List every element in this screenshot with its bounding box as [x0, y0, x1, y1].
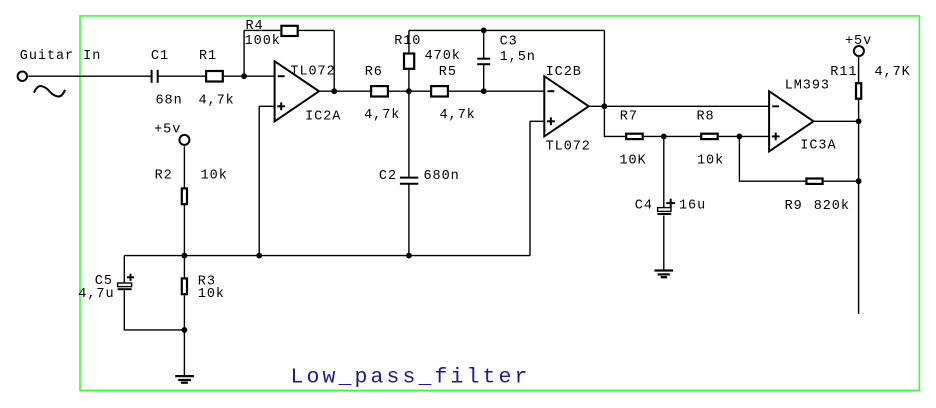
- wire R2 down through bus to R3: [183, 205, 185, 277]
- svg-text:C2: C2: [379, 169, 397, 184]
- label R11: [830, 65, 857, 80]
- svg-text:R1: R1: [199, 49, 217, 64]
- label C5: [95, 274, 113, 289]
- resistor R5: [431, 86, 448, 96]
- svg-text:68n: 68n: [156, 93, 183, 108]
- label R10: [394, 34, 421, 49]
- wire R4 row right segment: [299, 29, 334, 31]
- svg-text:IC2B: IC2B: [546, 65, 582, 80]
- svg-text:C3: C3: [500, 35, 518, 50]
- value 100k: [245, 34, 281, 49]
- junction top row / C3: [481, 28, 487, 34]
- svg-text:R7: R7: [620, 110, 638, 125]
- resistor R2: [182, 188, 187, 204]
- wire R6 to R5: [389, 90, 430, 92]
- wire IC2B output down to R7 row: [604, 106, 625, 136]
- bus wire (bias rail): [124, 255, 530, 257]
- svg-text:16u: 16u: [679, 199, 706, 214]
- label R7: [620, 110, 638, 125]
- AC source sine symbol: [34, 86, 65, 97]
- wire R3 down to ground: [183, 295, 185, 375]
- label R3: [198, 275, 216, 290]
- wire C4 column down: [663, 136, 665, 207]
- label R6: [365, 65, 383, 80]
- value 4,7k (R1): [199, 93, 235, 108]
- wire R1 to IC2A inverting input: [224, 75, 275, 77]
- wire R11 to +5v: [858, 57, 860, 82]
- wire IC2A noninverting stub: [259, 105, 274, 107]
- value 1,5n: [500, 50, 536, 65]
- svg-text:10k: 10k: [198, 287, 225, 302]
- capacitor C2: [400, 178, 418, 184]
- wire R4 row left segment: [244, 29, 280, 31]
- svg-text:R9: R9: [785, 199, 803, 214]
- wire node up to R10: [408, 70, 410, 91]
- svg-text:IC3A: IC3A: [800, 138, 836, 153]
- label IC3A: [800, 138, 836, 153]
- svg-text:R4: R4: [246, 19, 264, 34]
- svg-text:R10: R10: [394, 34, 421, 49]
- title Low_pass_filter: [291, 366, 531, 390]
- junction R6/R10/C2 node: [406, 88, 412, 94]
- capacitor C3: [477, 59, 490, 64]
- junction bus / C2: [406, 253, 412, 259]
- label +5v right: [845, 34, 872, 49]
- wire bus up to IC2B noninverting: [529, 121, 531, 255]
- plus mark C4: [666, 199, 675, 208]
- svg-text:4,7k: 4,7k: [440, 108, 476, 123]
- svg-text:820k: 820k: [814, 199, 850, 214]
- svg-text:Low_pass_filter: Low_pass_filter: [291, 366, 531, 390]
- svg-text:IC2A: IC2A: [305, 110, 341, 125]
- label R5: [439, 65, 457, 80]
- label R2: [155, 169, 173, 184]
- wire C1 to R1: [158, 75, 205, 77]
- junction IC2B output: [602, 103, 608, 109]
- wire C2 column from node down: [408, 91, 410, 177]
- svg-text:10K: 10K: [619, 153, 646, 168]
- capacitor C1: [152, 70, 158, 83]
- value 10K (R7): [619, 153, 646, 168]
- value 10k (R3): [198, 287, 225, 302]
- junction bus / IC2A noninverting: [256, 253, 262, 259]
- wire IC2B noninverting stub: [530, 120, 544, 122]
- op-amp IC2B: [544, 76, 588, 136]
- op-amp IC3A: [769, 91, 813, 151]
- capacitor C5 polarized: [118, 283, 132, 289]
- svg-text:100k: 100k: [245, 34, 281, 49]
- wire IC2A noninverting down to bus: [258, 106, 260, 255]
- wire output column down: [858, 121, 860, 314]
- label IC2B: [546, 65, 582, 80]
- svg-text:1,5n: 1,5n: [500, 50, 536, 65]
- svg-text:R6: R6: [365, 65, 383, 80]
- wire C5 down and right to ground column: [124, 290, 184, 330]
- svg-text:4,7k: 4,7k: [199, 93, 235, 108]
- label +5v left: [154, 123, 181, 138]
- wire R8 to IC3A noninverting input: [719, 135, 769, 137]
- value 16u: [679, 199, 706, 214]
- junction IC2A output / R4: [331, 88, 337, 94]
- svg-text:10k: 10k: [201, 169, 228, 184]
- junction R5 / C3 node: [481, 88, 487, 94]
- wire R4 down to IC2A output: [333, 30, 335, 91]
- wire IC2B output to IC3A inverting input: [589, 105, 769, 107]
- label LM393: [785, 78, 830, 93]
- resistor R6: [371, 86, 388, 96]
- svg-text:C4: C4: [635, 199, 653, 214]
- input connector circle: [18, 72, 27, 81]
- value 4,7K (R11): [875, 65, 911, 80]
- svg-text:4,7K: 4,7K: [875, 65, 911, 80]
- wire +5v to R2: [183, 146, 185, 187]
- svg-text:R5: R5: [439, 65, 457, 80]
- value 10k (R2): [201, 169, 228, 184]
- junction node at R1 output: [241, 73, 247, 79]
- svg-text:680n: 680n: [424, 169, 460, 184]
- svg-text:+5v: +5v: [154, 123, 181, 138]
- resistor R4: [281, 26, 297, 36]
- value 10k (R8): [697, 154, 724, 169]
- ground symbol (R3/C5): [175, 376, 194, 383]
- junction R3 / C5 bottom row: [182, 327, 188, 333]
- resistor R11: [856, 83, 861, 99]
- wire R10 up to top row: [408, 30, 410, 52]
- wire input to C1: [28, 75, 151, 77]
- label R1: [199, 49, 217, 64]
- value 470k: [425, 49, 461, 64]
- svg-text:4,7u: 4,7u: [78, 287, 114, 302]
- wire IC3A output: [814, 120, 859, 122]
- wire C2 down to bus: [408, 185, 410, 256]
- resistor R7: [626, 134, 643, 139]
- wire R7 to R8: [644, 135, 700, 137]
- label C1: [151, 49, 169, 64]
- junction bus / R2-R3: [182, 253, 188, 259]
- ground symbol (C4): [655, 271, 674, 278]
- label C3: [500, 35, 518, 50]
- resistor R3: [182, 278, 187, 294]
- svg-text:470k: 470k: [425, 49, 461, 64]
- wire R9 to output column: [824, 180, 859, 182]
- label R4: [246, 19, 264, 34]
- wire C3 top stub: [483, 30, 485, 58]
- svg-text:R8: R8: [697, 110, 715, 125]
- resistor R9: [806, 179, 822, 184]
- wire output up to R11: [858, 100, 860, 122]
- junction R7 / C4: [661, 134, 667, 140]
- value 4,7k (R5): [440, 108, 476, 123]
- svg-text:C1: C1: [151, 49, 169, 64]
- resistor R8: [701, 134, 718, 139]
- capacitor C4 polarized: [657, 208, 671, 214]
- label TL072 (IC2A): [290, 64, 335, 79]
- plus mark C5: [127, 274, 134, 281]
- value 4,7u: [78, 287, 114, 302]
- wire R9 column down from junction: [739, 136, 805, 181]
- junction R8 / R9: [737, 134, 743, 140]
- wire junction up to R4 row: [243, 30, 245, 76]
- label TL072 (IC2B): [546, 139, 591, 154]
- value 4,7k (R6): [364, 108, 400, 123]
- label R8: [697, 110, 715, 125]
- junction IC3A output: [856, 118, 862, 124]
- label Guitar In: [20, 49, 101, 64]
- wire C4 down to ground: [663, 216, 665, 270]
- op-amp IC2A: [275, 61, 319, 121]
- label C4: [635, 199, 653, 214]
- resistor R1: [206, 71, 223, 82]
- label IC2A: [305, 110, 341, 125]
- wire IC2A output to R6: [319, 90, 370, 92]
- wire IC2B output up to top row: [603, 30, 605, 106]
- power +5v supply right: [854, 46, 864, 56]
- resistor R10: [404, 54, 414, 69]
- svg-text:10k: 10k: [697, 154, 724, 169]
- label C2: [379, 169, 397, 184]
- svg-text:4,7k: 4,7k: [364, 108, 400, 123]
- svg-text:R2: R2: [155, 169, 173, 184]
- junction R9 / output column: [856, 178, 862, 184]
- svg-text:R11: R11: [830, 65, 857, 80]
- value 68n: [156, 93, 183, 108]
- value 680n: [424, 169, 460, 184]
- svg-text:TL072: TL072: [290, 64, 335, 79]
- wire bus left end down to C5: [123, 256, 125, 283]
- svg-text:+5v: +5v: [845, 34, 872, 49]
- wire C3 bottom stub: [483, 65, 485, 91]
- svg-text:LM393: LM393: [785, 78, 830, 93]
- label R9: [785, 199, 803, 214]
- power +5v supply left: [179, 135, 189, 145]
- wire top row R10 to C3 to IC2B output column: [409, 29, 605, 31]
- wire R5 to IC2B inverting input: [449, 90, 544, 92]
- value 820k: [814, 199, 850, 214]
- svg-text:TL072: TL072: [546, 139, 591, 154]
- svg-text:Guitar In: Guitar In: [20, 49, 101, 64]
